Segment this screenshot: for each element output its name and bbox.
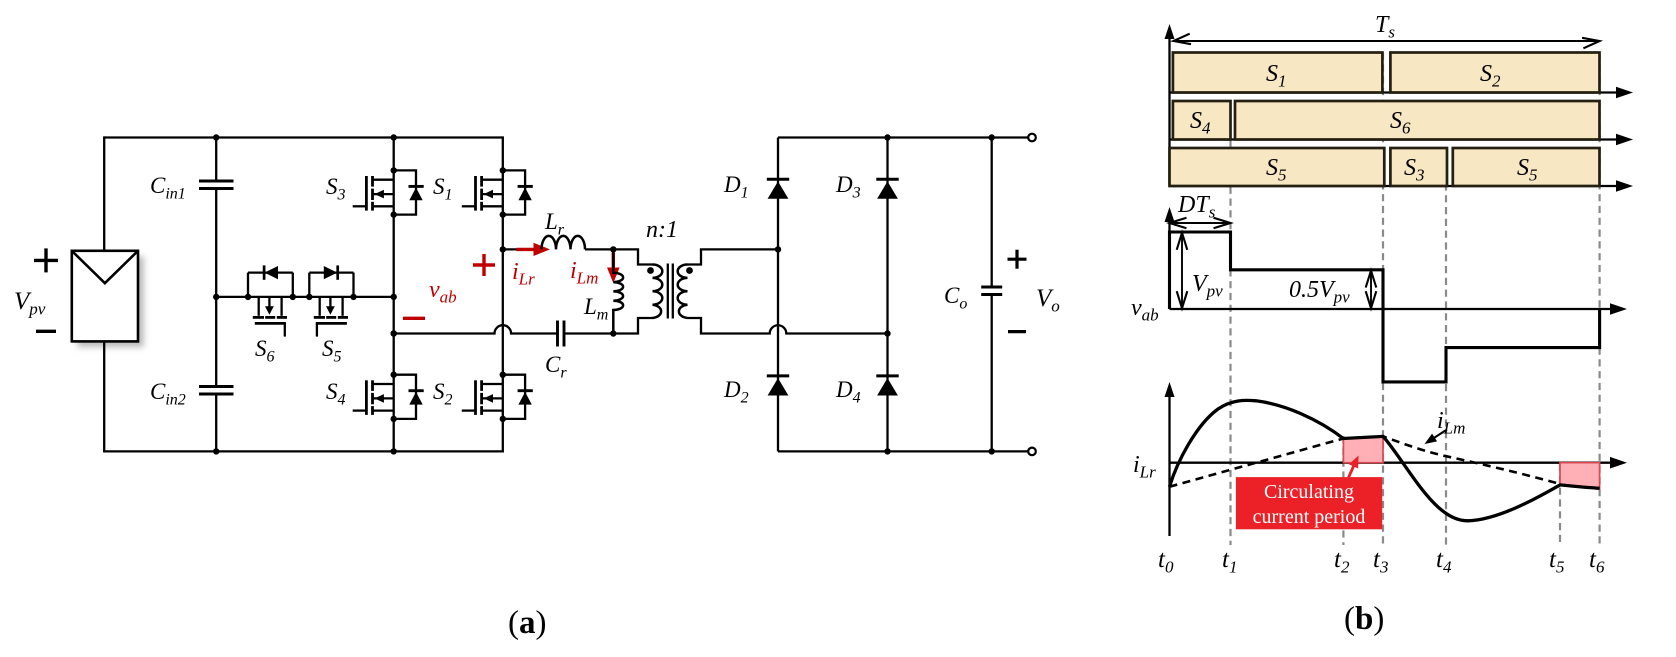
diode D3 xyxy=(876,179,898,199)
gate row3 axis xyxy=(1170,180,1634,192)
wire left column bottom xyxy=(103,341,105,452)
wire secondary top to rectifier xyxy=(688,249,779,264)
iLr axis vertical arrow xyxy=(1165,382,1175,536)
wire node to transformer primary top xyxy=(613,249,652,264)
wire S3/S4 leg column xyxy=(393,138,395,452)
vab axis vertical arrow xyxy=(1165,207,1175,309)
PV panel shadow xyxy=(78,257,144,348)
wire node b with hop over leg a xyxy=(394,325,614,333)
capacitor Cin2 xyxy=(199,387,234,395)
dashed time line t1 xyxy=(1229,140,1231,546)
diode D1 xyxy=(767,179,789,199)
capacitor Co xyxy=(981,287,1002,295)
label - (Vo) xyxy=(1008,330,1026,333)
dashed time line t3 xyxy=(1382,53,1384,546)
label + (Vpv positive) xyxy=(34,248,58,272)
transistor S5 xyxy=(306,265,357,336)
label + (Vo) xyxy=(1008,250,1027,269)
gate pulse S1 xyxy=(1173,53,1383,93)
transistor S2 xyxy=(462,372,533,423)
vab waveform xyxy=(1170,232,1600,382)
wire secondary bottom with hop to D3/D4 leg xyxy=(688,318,888,334)
gate row2 axis xyxy=(1170,134,1634,146)
PV panel source Vpv xyxy=(72,251,138,342)
wire rectifier top rail xyxy=(778,136,1028,138)
wire D3/D4 leg column xyxy=(886,138,888,452)
wire D1/D2 leg column xyxy=(777,138,779,452)
node secondary-bottom dot xyxy=(884,330,890,336)
wire bottom rail xyxy=(104,450,503,452)
output terminal bottom xyxy=(1028,448,1036,456)
dashed time line t4 xyxy=(1445,148,1447,545)
wire node to transformer primary bottom xyxy=(613,318,652,334)
node Lm-bottom dot xyxy=(610,330,616,336)
red pointer arrow xyxy=(1349,456,1359,478)
inductor Lr xyxy=(542,236,586,250)
gate row1 axis xyxy=(1170,87,1634,99)
circulating current shaded region t5-t6 xyxy=(1560,463,1600,489)
dashed time line t2 xyxy=(1342,436,1344,545)
gate pulse S5 second xyxy=(1453,148,1600,186)
Ts span arrow xyxy=(1174,34,1600,49)
inductor Lm xyxy=(613,249,623,333)
wire S1/S2 leg column xyxy=(502,136,504,452)
iLr waveform solid xyxy=(1170,400,1600,520)
svg-text:Circulating: Circulating xyxy=(1264,481,1354,503)
wire top rail xyxy=(104,136,503,138)
label - (Vpv negative) xyxy=(36,330,56,333)
transformer primary polarity dot xyxy=(647,267,654,274)
gate pulse S4 xyxy=(1173,101,1231,140)
capacitor Cr xyxy=(558,321,565,347)
circulating current label box xyxy=(1236,477,1382,529)
gate pulse S2 xyxy=(1390,53,1599,93)
node b dot xyxy=(391,330,397,336)
svg-text:current period: current period xyxy=(1253,506,1366,528)
transistor S3 xyxy=(353,167,424,218)
wire node a to Lr xyxy=(503,248,542,250)
node Lm-top dot xyxy=(610,246,616,252)
wire output capacitor column xyxy=(991,138,993,452)
transistor S1 xyxy=(462,167,533,218)
transistor S4 xyxy=(353,372,424,423)
current arrow iLm xyxy=(607,253,620,284)
gate axis vertical arrow xyxy=(1165,24,1175,186)
svg-text:n:1: n:1 xyxy=(646,217,678,243)
gate pulse S5 first xyxy=(1170,148,1385,186)
circulating current shaded region t2-t3 xyxy=(1343,436,1383,462)
iLm pointer arrow xyxy=(1425,430,1448,445)
node a dot xyxy=(500,246,506,252)
label - (vab) xyxy=(403,317,425,320)
node secondary-top dot xyxy=(775,246,781,252)
label + (vab) xyxy=(473,254,495,276)
iLm waveform dashed xyxy=(1170,436,1561,486)
current arrow iLr xyxy=(516,243,550,256)
diode D4 xyxy=(876,376,898,396)
junction dots rectifier rails xyxy=(884,134,995,454)
Vpv level arrow xyxy=(1177,233,1188,308)
wire rectifier bottom rail xyxy=(778,450,1028,452)
dashed time line t6 xyxy=(1598,53,1600,546)
svg-text:(b): (b) xyxy=(1344,601,1384,637)
transistor S6 xyxy=(245,265,296,336)
diode D2 xyxy=(767,376,789,396)
circulating current label text xyxy=(1253,481,1366,528)
dashed time line t5 xyxy=(1559,464,1561,545)
svg-text:(a): (a) xyxy=(508,605,547,641)
gate pulse S6 xyxy=(1235,101,1600,140)
output terminal top xyxy=(1028,134,1036,142)
gate pulse S3 xyxy=(1390,148,1447,186)
vab axis horizontal xyxy=(1170,303,1628,315)
iLr axis horizontal xyxy=(1170,457,1628,469)
wire Lr to node xyxy=(585,248,613,250)
wire input capacitor column xyxy=(215,138,217,452)
transformer core xyxy=(668,264,673,319)
capacitor Cin1 xyxy=(199,181,234,189)
0.5Vpv level arrow xyxy=(1366,271,1377,309)
transformer T1 primary winding xyxy=(653,265,663,319)
junction dots input rails xyxy=(213,134,397,454)
wire mid rail (S6/S5 row) xyxy=(216,296,394,298)
wire left column top xyxy=(103,136,105,250)
DTs span arrow xyxy=(1170,218,1231,229)
transformer secondary polarity dot xyxy=(686,267,693,274)
transformer T1 secondary winding xyxy=(678,265,688,319)
